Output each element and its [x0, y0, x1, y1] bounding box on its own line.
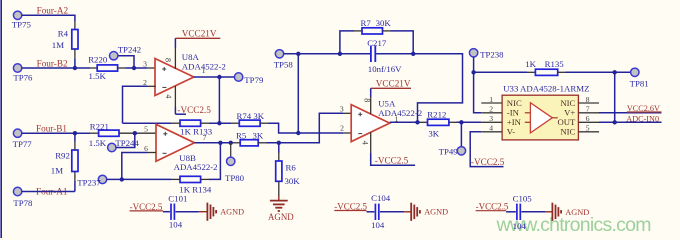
wire U5A output row [390, 121, 428, 123]
svg-text:ADA4522-2: ADA4522-2 [378, 108, 422, 118]
wire riser to U5A pin2 net [297, 54, 299, 133]
U8B plus mark [163, 132, 167, 136]
op-amp U8A ADA4522-2 [155, 52, 226, 96]
op-amp U33 ADA4528-1ARMZ [502, 83, 589, 139]
node junction detour/output [415, 120, 419, 124]
test point TP58 [274, 50, 294, 70]
svg-text:TP238: TP238 [480, 49, 504, 59]
wire U33 pin6 to ADC-IN0 [599, 121, 662, 123]
resistor R220 1.5K [88, 54, 117, 81]
svg-text:6: 6 [586, 114, 590, 123]
U5A plus mark [358, 112, 362, 116]
svg-text:R6: R6 [286, 163, 297, 173]
node junction R7 left [338, 52, 342, 56]
svg-text:8: 8 [362, 98, 371, 102]
svg-text:VCC21V: VCC21V [182, 28, 217, 38]
svg-text:1M: 1M [51, 166, 63, 176]
svg-text:4: 4 [164, 94, 173, 98]
svg-text:TP49: TP49 [439, 147, 459, 157]
svg-text:U33 ADA4528-1ARMZ: U33 ADA4528-1ARMZ [503, 83, 589, 93]
svg-text:AGND: AGND [268, 212, 294, 222]
resistor R212 3K [427, 110, 449, 139]
capacitor C101 104 [163, 194, 199, 230]
svg-text:TP78: TP78 [13, 198, 33, 208]
svg-text:TP76: TP76 [13, 72, 33, 82]
svg-text:C104: C104 [371, 193, 391, 203]
svg-text:AGND: AGND [424, 208, 448, 217]
svg-text:-VCC2.5: -VCC2.5 [375, 156, 409, 166]
svg-text:R135: R135 [545, 59, 565, 69]
test point TP49 [439, 122, 466, 156]
U33 pin 7 V+ [564, 105, 599, 118]
power port VCC2.6V [627, 104, 662, 113]
power port -VCC2.5 at C101 [130, 202, 163, 212]
wire U8A output [194, 76, 235, 78]
U33 pin 1 NIC [481, 95, 522, 108]
svg-text:3: 3 [340, 105, 344, 114]
test point TP76 [13, 64, 33, 83]
ground AGND at C101 [199, 203, 244, 221]
svg-text:V+: V+ [564, 108, 575, 118]
svg-text:NIC: NIC [560, 127, 575, 137]
svg-text:TP79: TP79 [244, 75, 264, 85]
test point TP75 [12, 11, 32, 30]
svg-text:1: 1 [202, 66, 206, 75]
svg-text:TP244: TP244 [115, 138, 139, 148]
resistor R5 3K [236, 131, 264, 146]
svg-text:7: 7 [586, 105, 590, 114]
test point TP242 [110, 45, 142, 60]
test point TP81 [630, 68, 649, 88]
svg-text:3: 3 [143, 59, 147, 68]
node junction R92/Four-B1 [73, 131, 77, 135]
svg-text:3K: 3K [253, 131, 264, 141]
svg-text:TP58: TP58 [274, 60, 294, 70]
svg-text:TP81: TP81 [630, 78, 649, 88]
wire R74 to U5A pin2 [260, 123, 351, 133]
svg-text:6: 6 [144, 144, 148, 153]
node junction R134/output [218, 141, 222, 145]
svg-text:R4: R4 [58, 28, 69, 38]
node junction C217 riser / pin2 [296, 131, 300, 135]
svg-text:ADC-IN0: ADC-IN0 [626, 114, 659, 123]
U33 pin 2 -IN [481, 105, 519, 118]
resistor R92 1M [51, 150, 78, 176]
resistor R133 1K [180, 120, 213, 137]
svg-text:3K: 3K [428, 129, 439, 139]
svg-text:30K: 30K [285, 176, 301, 186]
svg-text:8: 8 [586, 95, 590, 104]
power port VCC21V U5A pin 8 [371, 79, 411, 115]
svg-text:TP237: TP237 [77, 178, 101, 188]
node junction U8A feedback [217, 121, 221, 125]
test point TP80 [225, 143, 245, 183]
U5A minus mark [358, 133, 362, 135]
svg-text:V-: V- [507, 127, 515, 137]
capacitor C105 104 [506, 194, 546, 231]
svg-text:VCC21V: VCC21V [376, 79, 411, 89]
wire R5 to U5A pin3 [258, 113, 351, 143]
svg-text:NIC: NIC [507, 98, 522, 108]
svg-text:5: 5 [144, 125, 148, 134]
svg-text:TP77: TP77 [13, 139, 33, 149]
power port -VCC2.5 at C105 [476, 202, 509, 212]
ground AGND at C105 [546, 203, 590, 221]
node junction TP242/pin3 [132, 66, 136, 70]
wire feedback detour to U5A output [413, 54, 462, 123]
svg-text:C105: C105 [513, 194, 533, 204]
wire U8B pin6 to R134 row [122, 153, 180, 180]
power port -VCC2.5 U33 pin 4 [470, 132, 505, 167]
capacitor C217 10nf/16V [367, 38, 402, 74]
wire Four-A1 row [22, 191, 75, 193]
U33 pin 5 NIC [560, 124, 599, 137]
svg-text:1M: 1M [52, 40, 64, 50]
sheet border left edge [0, 0, 2, 238]
wire R134 to U8B output [201, 143, 221, 180]
node junction pin6/riser [613, 120, 617, 124]
svg-text:-IN: -IN [507, 108, 520, 118]
wire R221 to U8B pin5 [119, 132, 156, 134]
svg-text:4: 4 [360, 141, 369, 145]
resistor R135 1K [474, 59, 631, 75]
svg-text:Four-B2: Four-B2 [37, 58, 68, 68]
svg-text:5: 5 [586, 124, 590, 133]
node junction TP238/R135 [471, 70, 475, 74]
svg-text:R220: R220 [88, 54, 108, 64]
svg-text:-VCC2.5: -VCC2.5 [177, 105, 211, 115]
svg-text:C217: C217 [367, 38, 387, 48]
wire R220 to U8A pin3 [118, 67, 156, 69]
op-amp U5A ADA4522-2 [351, 98, 422, 141]
resistor R7 30K [340, 18, 413, 54]
node junction R135/OUT riser [613, 70, 617, 74]
svg-text:R212: R212 [427, 110, 446, 120]
node junction TP80/output [229, 141, 233, 145]
svg-text:ADA4522-2: ADA4522-2 [174, 162, 218, 172]
resistor R74 3K [237, 111, 265, 126]
svg-text:TP242: TP242 [118, 45, 141, 55]
svg-text:R221: R221 [90, 121, 109, 131]
U33 pin 4 V- [481, 124, 515, 137]
svg-text:NIC: NIC [560, 98, 575, 108]
svg-text:7: 7 [203, 133, 207, 142]
node junction TP244/pin5 [133, 131, 137, 135]
U8B minus mark [163, 152, 167, 154]
wire TP237 stem [107, 178, 122, 180]
svg-text:30K: 30K [376, 18, 392, 28]
wire R4 to Four-B2 node [74, 49, 76, 68]
svg-text:1: 1 [489, 95, 493, 104]
power port -VCC2.5 at C104 [334, 201, 367, 211]
test point TP237 [77, 175, 106, 187]
wire TP244 stem [116, 133, 135, 147]
power port -VCC2.5 U8A pin 4 [175, 86, 211, 115]
svg-text:OUT: OUT [557, 117, 576, 127]
U33 pin 3 +IN [481, 114, 521, 127]
wire TP238 stem to U33 pin2 [474, 57, 482, 113]
U8A minus mark [162, 86, 166, 88]
svg-text:+IN: +IN [507, 117, 522, 127]
test point TP244 [108, 138, 140, 152]
wire R92 leads [74, 133, 76, 191]
svg-text:AGND: AGND [565, 208, 589, 217]
U33 pin 8 NIC [560, 95, 599, 108]
power port -VCC2.5 U5A pin 4 [371, 132, 415, 165]
svg-text:2: 2 [143, 78, 147, 87]
U33 inner op-amp triangle [525, 103, 558, 133]
svg-text:3: 3 [489, 114, 493, 123]
wire TP75 to R4 [22, 15, 75, 29]
node junction TP58 riser [296, 52, 300, 56]
node junction R6/R5 row [277, 141, 281, 145]
test point TP238 [469, 49, 504, 60]
U8A plus mark [162, 67, 166, 71]
svg-text:1K R133: 1K R133 [180, 127, 213, 137]
resistor R221 1.5K [89, 121, 119, 148]
svg-text:R5: R5 [236, 131, 247, 141]
svg-text:U5A: U5A [378, 98, 396, 108]
wire riser R135 to pin6 [614, 72, 616, 122]
svg-text:1.5K: 1.5K [89, 71, 107, 81]
wire U33 pin7 to VCC2.6V [599, 112, 662, 114]
wire R212 to U33 pin3 [449, 121, 481, 123]
svg-text:R74 3K: R74 3K [237, 111, 265, 121]
op-amp U8B ADA4522-2 [156, 124, 218, 172]
ground AGND at C104 [404, 203, 448, 221]
svg-text:Four-A2: Four-A2 [37, 6, 69, 16]
ground AGND below R6 [268, 181, 294, 222]
node junction TP237/R134 [120, 177, 124, 181]
svg-text:2: 2 [489, 105, 493, 114]
svg-text:1K: 1K [525, 59, 536, 69]
resistor R6 30K [276, 143, 301, 186]
svg-text:104: 104 [513, 221, 527, 231]
svg-text:4: 4 [489, 124, 493, 133]
capacitor C104 104 [367, 193, 405, 230]
node junction R4/Four-B2 [73, 66, 77, 70]
wire U8B output row [195, 142, 241, 144]
wire TP242 stem [118, 56, 134, 68]
svg-text:104: 104 [371, 220, 385, 230]
wire R133 to R74 [201, 122, 240, 124]
node junction U8A output [217, 75, 221, 79]
svg-text:-VCC2.5: -VCC2.5 [471, 157, 505, 167]
U33 pin 6 OUT [557, 114, 599, 127]
power port VCC21V U8A pin 8 [175, 28, 220, 69]
test point TP77 [13, 129, 33, 149]
wire Four-B2 row [22, 67, 97, 69]
svg-text:1.5K: 1.5K [89, 138, 107, 148]
svg-text:2: 2 [340, 123, 344, 132]
svg-text:TP80: TP80 [225, 173, 245, 183]
node junction TP49 [459, 120, 463, 124]
svg-text:R7: R7 [361, 18, 372, 28]
resistor R134 1K [179, 176, 212, 194]
wire U8A pin2 to R133 row [123, 86, 181, 123]
wire U8A feedback riser [218, 77, 220, 123]
test point TP79 [234, 73, 264, 85]
wire Four-B1 row [22, 132, 99, 134]
svg-text:104: 104 [169, 220, 183, 230]
svg-text:R92: R92 [55, 151, 70, 161]
wire TP58 row [284, 53, 414, 55]
svg-text:Four-B1: Four-B1 [36, 124, 67, 134]
svg-text:C101: C101 [168, 194, 187, 204]
svg-text:8: 8 [164, 58, 173, 62]
svg-text:TP75: TP75 [12, 20, 32, 30]
test point TP78 [13, 187, 33, 208]
svg-text:U8A: U8A [182, 52, 200, 62]
svg-text:AGND: AGND [220, 208, 244, 217]
node junction R7 right [411, 52, 415, 56]
resistor R4 1M [52, 28, 78, 50]
svg-text:10nf/16V: 10nf/16V [368, 64, 402, 74]
